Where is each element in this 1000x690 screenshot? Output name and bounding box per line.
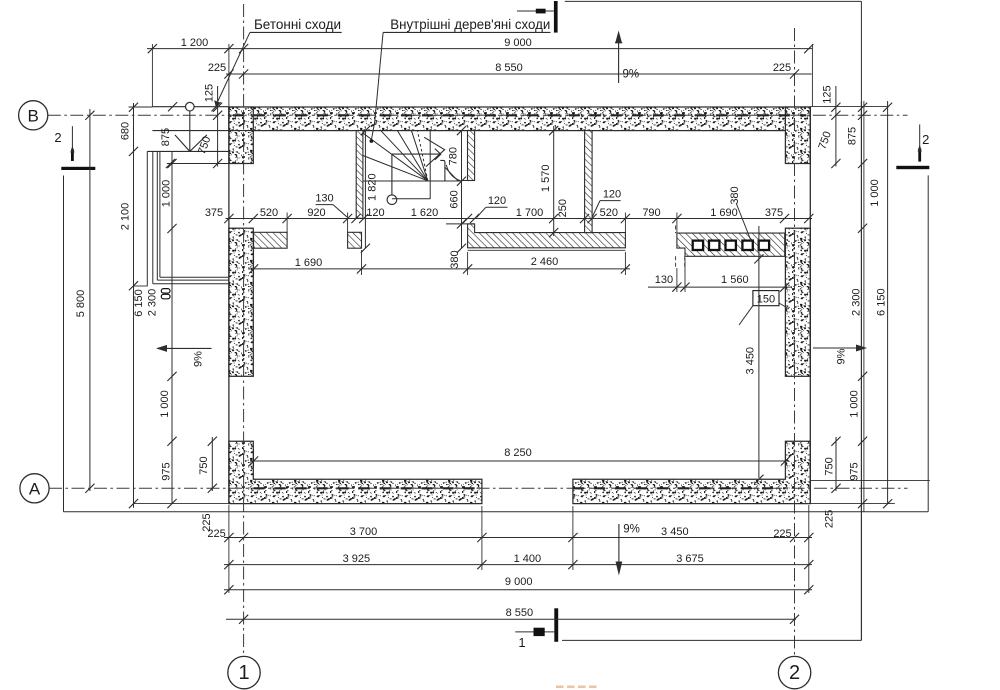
entry stair chevron (175, 135, 207, 152)
svg-text:130: 130 (655, 274, 673, 286)
svg-text:5 800: 5 800 (75, 290, 87, 318)
svg-text:6 150: 6 150 (875, 288, 887, 316)
svg-text:225: 225 (207, 528, 225, 540)
svg-text:225: 225 (773, 62, 791, 74)
partition PT2 (right of stairs) (468, 131, 475, 181)
bottom slope arrow 9% (618, 524, 620, 562)
partition PT1 (left of stairs) (356, 131, 363, 219)
axis B dash-dot line (48, 114, 908, 116)
section-2 frame right (927, 175, 929, 511)
interior partition wall segment H3 (with door stub) (468, 224, 626, 248)
dim chain 750 bottom-left (211, 437, 213, 491)
dashed hidden lines near H4 (675, 226, 677, 234)
svg-text:2 300: 2 300 (146, 289, 158, 317)
top slope arrow 9% (618, 43, 620, 83)
svg-text:9%: 9% (193, 351, 205, 367)
small ramp symbols (161, 289, 170, 294)
svg-text:380: 380 (449, 250, 461, 268)
dim chain 8250 (250, 460, 789, 462)
tread diagonal (445, 167, 458, 181)
svg-text:875: 875 (846, 127, 858, 145)
svg-text:920: 920 (307, 207, 325, 219)
wall pier mid-left (229, 228, 253, 376)
top dim line 1200 / 9000 (147, 48, 813, 50)
svg-text:125: 125 (204, 84, 216, 102)
svg-text:975: 975 (161, 462, 173, 480)
interior dim chain y=218.5 (226, 218, 813, 220)
partition PT3 (middle) (585, 131, 593, 233)
svg-text:225: 225 (773, 528, 791, 540)
entry stair arrow circle (186, 102, 195, 111)
svg-text:780: 780 (448, 147, 460, 165)
svg-text:130: 130 (315, 193, 333, 205)
wall pier top-right (785, 107, 810, 164)
first tread step outline (440, 160, 445, 180)
svg-text:120: 120 (366, 207, 384, 219)
top extension lines (151, 44, 153, 107)
svg-text:Бетонні сходи: Бетонні сходи (254, 17, 341, 32)
dim chain 6150 right (887, 101, 889, 504)
svg-text:875: 875 (160, 128, 172, 146)
bottom dim chain C3 9000 (224, 589, 812, 591)
svg-text:2 100: 2 100 (119, 203, 131, 231)
svg-text:2: 2 (54, 130, 61, 145)
svg-text:9 000: 9 000 (504, 37, 532, 49)
bottom dim chain C4 8550 (226, 618, 796, 620)
svg-text:2: 2 (789, 662, 800, 684)
svg-text:680: 680 (119, 122, 131, 140)
right slope arrow 9% (813, 347, 857, 349)
svg-text:520: 520 (600, 207, 618, 219)
dim chain 130/1560 (648, 286, 792, 288)
axis 1 dash-dot line (243, 4, 245, 656)
right extension of bottom wall bottom (810, 503, 895, 505)
svg-text:975: 975 (849, 462, 861, 480)
dim chain 5800 (89, 109, 91, 491)
wall pier top-left (229, 107, 253, 164)
svg-text:790: 790 (642, 207, 660, 219)
wall-top extension line right (810, 106, 888, 108)
wall pier mid-right (785, 228, 810, 376)
svg-text:150: 150 (757, 294, 775, 306)
dim chain 1000/2300/1000/975 left (171, 151, 173, 503)
section mark 1 bottom (554, 608, 558, 642)
svg-text:125: 125 (821, 85, 833, 103)
svg-text:375: 375 (765, 207, 783, 219)
svg-text:3 450: 3 450 (744, 347, 756, 375)
svg-text:1 000: 1 000 (159, 390, 171, 418)
svg-text:750: 750 (198, 456, 210, 474)
dim chain 680/2100/6150 left (133, 103, 135, 508)
svg-text:6 150: 6 150 (133, 289, 145, 317)
top exterior wall (stippled concrete) (229, 107, 810, 131)
section-1 frame right (860, 1, 862, 640)
svg-text:1 000: 1 000 (869, 179, 881, 207)
axis 2 dash-dot line (794, 28, 796, 656)
top dim line 225 / 8550 / 225 (226, 73, 812, 75)
section frame bottom (64, 511, 929, 513)
svg-text:9%: 9% (836, 348, 848, 364)
axis circle B (19, 101, 48, 130)
svg-text:1 820: 1 820 (367, 173, 379, 201)
svg-text:1 690: 1 690 (710, 207, 738, 219)
axis circle A (20, 474, 49, 503)
svg-text:225: 225 (208, 62, 226, 74)
svg-text:9 000: 9 000 (505, 576, 533, 588)
bold dashes of axis B inside wall (233, 114, 806, 116)
dotted tread line (418, 131, 428, 181)
svg-text:375: 375 (205, 207, 223, 219)
walk line arrow big (424, 137, 444, 166)
svg-text:120: 120 (488, 195, 506, 207)
porch bottom edges (160, 276, 229, 278)
svg-text:А: А (29, 479, 41, 498)
porch left edges (146, 151, 148, 286)
axis circle 1 (228, 656, 260, 688)
svg-text:8 250: 8 250 (504, 447, 532, 459)
svg-text:3 700: 3 700 (350, 526, 378, 538)
stair right edge (461, 131, 463, 182)
leader dot for wooden stairs (371, 32, 383, 139)
walk line (391, 154, 393, 195)
svg-text:9%: 9% (623, 524, 640, 536)
bottom-right corner wall + wall band (573, 441, 810, 503)
dim chain 1820 (364, 131, 366, 249)
dim chain 125/750 top-right (835, 86, 837, 167)
vent channel squares (693, 241, 703, 250)
sub chain 1690 / 2460 (249, 268, 631, 270)
left extension of bottom wall bottom (134, 503, 229, 505)
svg-text:1: 1 (238, 662, 249, 684)
entry stair direction line (189, 111, 191, 151)
svg-text:250: 250 (557, 199, 569, 217)
svg-text:1 620: 1 620 (411, 207, 439, 219)
svg-text:Внутрішні дерев'яні сходи: Внутрішні дерев'яні сходи (390, 17, 550, 32)
section-2 frame left (63, 176, 65, 512)
axis A dash-dot line (49, 487, 908, 489)
svg-text:1: 1 (518, 635, 525, 650)
svg-text:520: 520 (260, 207, 278, 219)
interior partition wall segment H2 (348, 232, 362, 248)
bottom dim chain C2 (224, 564, 812, 566)
svg-text:120: 120 (603, 189, 621, 201)
walk line arrow small (435, 149, 441, 160)
stair bottom edge (363, 180, 462, 182)
svg-text:3 925: 3 925 (343, 553, 371, 565)
partition PT2 bottom edge (462, 180, 474, 182)
svg-text:1 200: 1 200 (181, 37, 209, 49)
stair lower landing line (392, 198, 430, 200)
svg-text:1 560: 1 560 (721, 274, 749, 286)
porch top edge lines (152, 106, 229, 108)
dim chain 780/660/380 (457, 126, 466, 135)
svg-text:В: В (28, 106, 39, 125)
section-1 frame bottom (562, 639, 861, 641)
ledge line under H3 (468, 249, 626, 251)
door sill line under stairs (446, 223, 475, 225)
bottom-left corner wall + wall band (229, 441, 482, 503)
svg-text:1 000: 1 000 (160, 180, 172, 208)
right outer wall face line (809, 107, 811, 504)
bold dashes of axis A inside bottom wall (254, 487, 482, 489)
left slope arrow 9% (158, 347, 212, 349)
interior wall H4 with vent channels (677, 233, 785, 256)
svg-text:1 700: 1 700 (516, 207, 544, 219)
svg-text:660: 660 (449, 190, 461, 208)
boxed label 150 (753, 291, 779, 306)
dim chain 875/1000/2300/1000/975 right (860, 101, 862, 640)
svg-text:225: 225 (824, 510, 836, 528)
dim chain 3450 vertical (758, 226, 760, 478)
svg-text:2 300: 2 300 (851, 288, 863, 316)
svg-text:9%: 9% (622, 69, 639, 81)
svg-text:8 550: 8 550 (495, 62, 523, 74)
porch chain extension (134, 285, 148, 287)
left outer wall face line (228, 107, 230, 504)
section mark 1 top (554, 1, 558, 33)
stair flight edge (429, 131, 431, 199)
walk line circle (387, 195, 397, 205)
svg-text:1 570: 1 570 (540, 165, 552, 193)
interior partition wall segment H1 (254, 232, 288, 248)
pier bottom level line (porch) (167, 163, 229, 165)
svg-text:3 450: 3 450 (661, 526, 689, 538)
wall-top extension line left (129, 106, 153, 108)
extension lines for interior chain (286, 213, 288, 233)
svg-text:1 000: 1 000 (849, 390, 861, 418)
axis circle 2 (778, 656, 810, 688)
bottom pier dim 750 right (835, 437, 837, 491)
svg-text:3 675: 3 675 (676, 553, 704, 565)
svg-text:2 460: 2 460 (531, 256, 559, 268)
svg-text:750: 750 (824, 457, 836, 475)
section-1 frame top (565, 0, 862, 2)
bottom dim chain C1 (224, 537, 812, 539)
svg-text:2: 2 (922, 132, 929, 147)
stair winder tread lines (363, 133, 428, 181)
svg-text:380: 380 (729, 186, 741, 204)
right extension of bottom wall top (810, 480, 930, 482)
svg-text:8 550: 8 550 (506, 607, 534, 619)
svg-text:1 400: 1 400 (514, 553, 542, 565)
dim chain 125/750 top-left (217, 86, 219, 167)
scan artifact dashes (556, 686, 564, 689)
dim chain 1570/250 (553, 126, 555, 236)
bottom extension lines (228, 505, 230, 593)
svg-text:1 690: 1 690 (295, 257, 323, 269)
stair door swing arc (446, 165, 461, 181)
